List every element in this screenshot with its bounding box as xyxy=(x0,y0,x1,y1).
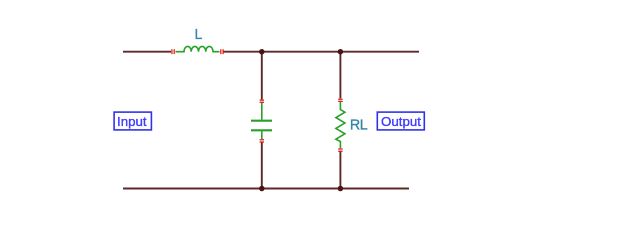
svg-text:L: L xyxy=(195,27,203,43)
svg-text:Input: Input xyxy=(117,114,147,129)
svg-text:RL: RL xyxy=(350,118,368,134)
svg-text:Output: Output xyxy=(381,114,421,129)
